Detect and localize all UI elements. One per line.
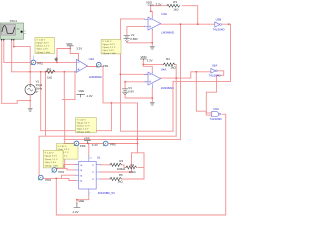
wire op-amp U3A bottom pin to ground (151, 29, 153, 46)
svg-text:1kΩ: 1kΩ (118, 180, 124, 184)
wire gate U6A output down to bottom rail (56, 114, 225, 215)
svg-text:LM348AD: LM348AD (161, 86, 174, 90)
svg-text:V(freq): 1 kHz: V(freq): 1 kHz (77, 131, 91, 134)
wire battery V2 minus to op-amp ground (127, 42, 152, 43)
wire VDD2 stem (151, 6, 153, 17)
junction node dots (13, 10, 230, 200)
svg-text:V(rms): 1.1 V: V(rms): 1.1 V (102, 46, 115, 49)
gate U5A (inverter) (209, 64, 221, 78)
wire IC right pin 2 (100, 153, 131, 172)
svg-text:U1: U1 (97, 156, 101, 160)
gate U6A (NAND) (210, 107, 222, 121)
wire scope B- branch to probe PR2 (14, 41, 30, 72)
svg-text:1kΩ: 1kΩ (173, 8, 179, 12)
VEE supply op-amp U2A (77, 89, 93, 98)
svg-text:1kΩ: 1kΩ (47, 76, 53, 80)
svg-text:7: 7 (89, 193, 91, 195)
op-amp U4A (145, 68, 174, 90)
svg-text:74LS00D: 74LS00D (210, 117, 222, 121)
svg-text:100kΩ: 100kΩ (117, 167, 126, 171)
probe readout box 3 (76, 118, 97, 134)
svg-text:V(dc): 1.4 V: V(dc): 1.4 V (102, 50, 114, 52)
wire minus node to VDD stem tie (57, 49, 70, 63)
svg-text:V(p-p): 3.2 V: V(p-p): 3.2 V (77, 123, 90, 125)
svg-text:VDD: VDD (66, 42, 72, 46)
wire stage3 minus line (120, 73, 148, 75)
wire VDD IC horizontal (64, 143, 138, 145)
wire stage2 output line to gate U3B (161, 23, 215, 25)
wire VDD3 junction to resistor R4 (143, 65, 176, 79)
svg-text:PR1: PR1 (103, 64, 109, 68)
wire drop to rail A (110, 103, 112, 131)
wire PR4 node to IC pins (57, 168, 76, 170)
resistor R3b 100k (110, 159, 126, 171)
svg-text:3.3V: 3.3V (92, 143, 98, 147)
wire rail C (64, 138, 181, 140)
probe PR1 (96, 62, 109, 68)
wire output corner down and across (103, 67, 138, 103)
resistor R4 (163, 57, 176, 69)
svg-text:R5: R5 (119, 173, 123, 177)
wire V1 top stem (29, 72, 31, 85)
wire plus node drop to PR5 (62, 72, 75, 169)
svg-text:74LS04D: 74LS04D (213, 27, 225, 31)
svg-text:PR4: PR4 (58, 170, 64, 174)
wire jog to IC pin 1 (64, 165, 75, 169)
oscilloscope XSC1 (1, 19, 26, 41)
ground op-amp U3A (150, 47, 154, 50)
wire R2 left drop to rail B (45, 72, 47, 136)
wire gate U5A output loop to gate U6A input 1 (206, 71, 223, 113)
svg-text:3.3V: 3.3V (156, 3, 162, 7)
svg-text:VDD: VDD (146, 1, 152, 5)
svg-text:U3B: U3B (216, 17, 222, 21)
probe PR6 (74, 141, 86, 148)
VEE supply IC U1 (72, 199, 85, 214)
wire jog to IC pin 4 (69, 178, 75, 180)
wire battery V3 plus line (125, 82, 148, 89)
svg-text:V(rms): 1.1 V: V(rms): 1.1 V (77, 125, 90, 128)
gate U3B (inverter) (213, 17, 225, 31)
svg-text:U5A: U5A (212, 64, 218, 68)
svg-text:R3: R3 (119, 159, 123, 163)
IC U1 (75, 156, 115, 196)
svg-text:V: 1.62 V: V: 1.62 V (45, 153, 54, 155)
svg-text:V(dc): 1.4 V: V(dc): 1.4 V (45, 162, 57, 164)
svg-text:U6A: U6A (213, 107, 219, 111)
wire stage2 minus vertical down to rail B (120, 19, 173, 131)
svg-text:V(rms): 1.1 V: V(rms): 1.1 V (45, 158, 58, 161)
svg-text:V(p-p): 3.2 V: V(p-p): 3.2 V (36, 43, 49, 45)
AC source V1 (25, 80, 43, 95)
probe PR5 (103, 141, 116, 146)
svg-text:14: 14 (89, 158, 92, 160)
svg-text:V(freq): 1 kHz: V(freq): 1 kHz (102, 52, 116, 55)
wire scope A+ down to V1 ground node (2, 41, 31, 104)
svg-text:V(p-p): 3.2 V: V(p-p): 3.2 V (45, 156, 58, 158)
wire op-amp U4A bottom pin to ground (151, 88, 153, 102)
probe readout box 1 (35, 37, 54, 54)
svg-text:LM348AD: LM348AD (89, 75, 102, 79)
wire battery V2 plus line (127, 27, 145, 35)
wire plus input line to op-amp U2A (12, 71, 77, 73)
svg-text:VEE: VEE (78, 89, 84, 93)
probe PR2 (31, 56, 43, 66)
svg-text:V(freq): 1 kHz: V(freq): 1 kHz (45, 164, 59, 167)
svg-text:PR6: PR6 (80, 144, 86, 148)
wire op-amp U2A output line (87, 66, 103, 68)
probe readout box 4 (43, 144, 78, 168)
wire op-amp U2A VDD stem (70, 47, 78, 60)
svg-text:V: 1.62 V: V: 1.62 V (36, 39, 45, 41)
resistor R5 1k (110, 173, 124, 184)
svg-text:40106BD_5V: 40106BD_5V (98, 191, 115, 195)
svg-text:V(p-p): 3.2 V: V(p-p): 3.2 V (102, 44, 115, 46)
svg-text:R3: R3 (173, 0, 177, 4)
svg-text:0°: 0° (36, 90, 39, 94)
svg-text:VDD: VDD (84, 137, 90, 141)
wire drop to IC ladder (137, 103, 139, 153)
op-amp U3A (145, 12, 175, 35)
wire gate U3B output to right edge (222, 24, 231, 81)
VDD supply op-amp U4A (140, 55, 152, 63)
svg-text:U2A: U2A (89, 57, 95, 61)
svg-text:R4: R4 (166, 57, 170, 61)
svg-text:3.3V: 3.3V (147, 58, 153, 62)
wire rail B from probe PR3 (39, 136, 176, 175)
wire scope A- to op-amp U2A minus input (4, 41, 77, 63)
VDD supply op-amp U3A (146, 1, 162, 7)
svg-text:U4A: U4A (161, 68, 167, 72)
resistor R3 (167, 0, 180, 12)
svg-text:1kΩ: 1kΩ (171, 65, 177, 69)
VDD supply op-amp U2A (66, 42, 82, 51)
op-amp U2A (75, 57, 102, 79)
wire vertical from gate input line down to rail B (180, 24, 182, 139)
svg-text:V: 1.62 V: V: 1.62 V (102, 41, 111, 43)
svg-text:0.89V: 0.89V (130, 37, 138, 41)
svg-text:V: 1.62 V: V: 1.62 V (77, 120, 86, 122)
ground op-amp U4A (150, 103, 154, 106)
probe PR3 (38, 175, 51, 182)
wire VDD2 to resistor R3 (151, 6, 198, 25)
battery V2 (124, 33, 138, 42)
probe PR4 (52, 168, 65, 174)
svg-text:0.9V: 0.9V (128, 90, 134, 94)
wire stage3 output to gate U5A (161, 72, 211, 78)
svg-text:XSC1: XSC1 (10, 19, 18, 23)
svg-text:-1.0V: -1.0V (72, 210, 79, 214)
svg-text:PR5: PR5 (110, 143, 116, 147)
svg-text:V(dc): 1.4 V: V(dc): 1.4 V (77, 129, 89, 131)
resistor R1 10k (126, 163, 137, 174)
resistor R2 (46, 67, 55, 79)
svg-text:PR2: PR2 (37, 61, 43, 65)
on-page connector arrow (55, 58, 58, 62)
wire IC bottom pin to VEE (77, 195, 89, 204)
svg-text:74LS04D: 74LS04D (209, 74, 221, 78)
VDD supply IC U1 (84, 137, 98, 148)
battery V3 (122, 86, 134, 95)
svg-text:PR3: PR3 (45, 178, 51, 182)
wire IC right pin 3 through R5 (100, 178, 144, 180)
wire long horizontal right mid (173, 81, 231, 131)
wire battery V3 minus to op-amp ground (125, 94, 152, 98)
svg-text:VEE: VEE (78, 199, 84, 203)
wire stage3 output junction down to rail A (175, 78, 177, 136)
wire VDD IC stem down to IC top pin (87, 144, 89, 156)
wire IC right pin 1 through resistors (100, 153, 144, 179)
wire op-amp U2A negative supply pin to VEE (74, 71, 76, 99)
svg-text:U3A: U3A (161, 12, 167, 16)
svg-text:R2: R2 (47, 67, 51, 71)
wire PR3 node to IC pin 3 (43, 175, 75, 178)
svg-text:V(freq): 1 kHz: V(freq): 1 kHz (36, 51, 50, 54)
svg-text:3.3V: 3.3V (76, 47, 82, 51)
probe readout box 2 (101, 39, 121, 54)
svg-text:-1.0V: -1.0V (86, 94, 93, 98)
svg-text:V(rms): 1.1 V: V(rms): 1.1 V (36, 45, 49, 48)
wire VDD3 stem (143, 60, 152, 72)
wire scope B+ down to plus input line (11, 41, 13, 72)
svg-text:10kΩ: 10kΩ (129, 170, 137, 174)
svg-text:V(dc): 1.4 V: V(dc): 1.4 V (36, 49, 48, 51)
wire junction down to gate U6A input 2 (196, 72, 211, 115)
wire rail A from R2 left terminal (41, 72, 112, 131)
svg-text:V: 1.62 V: V: 1.62 V (58, 146, 67, 148)
svg-text:LM348AD: LM348AD (161, 31, 174, 35)
ground below V1 (29, 95, 31, 108)
